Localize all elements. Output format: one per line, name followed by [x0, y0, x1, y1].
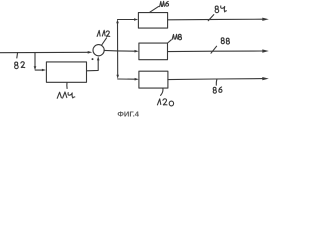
leader slash for label 88: [211, 46, 217, 53]
wire branch down to block 114: [34, 53, 36, 68]
label 84: [215, 6, 218, 9]
label 114: [57, 92, 61, 98]
leader for label 112: [102, 38, 107, 45]
wire bus bottom into block 120: [118, 78, 135, 80]
label 86: [213, 87, 216, 90]
arrowhead output 86: [262, 77, 269, 80]
junction dot minus mark: [92, 58, 94, 60]
arrowhead up at bus top: [116, 19, 119, 23]
label 120: [157, 99, 160, 105]
wire output 88: [168, 50, 264, 53]
leader tick for label 82: [16, 53, 19, 59]
arrowhead down at corner: [34, 66, 37, 70]
arrowhead down at bus bottom: [116, 75, 119, 79]
label 118: [172, 34, 174, 39]
label 82: [15, 62, 18, 65]
wire output 86: [168, 79, 263, 80]
leader for label 118: [168, 40, 172, 43]
leader tick for label 86: [215, 79, 218, 85]
wire input line 82: [0, 51, 88, 53]
leader slash for label 84: [208, 15, 214, 21]
summing junction 112: [93, 45, 104, 56]
arrowhead output 88: [262, 49, 269, 52]
block 116: [138, 13, 167, 29]
label 112: [97, 30, 100, 36]
wire into block 114: [35, 69, 42, 71]
bus vertical up: [117, 23, 119, 51]
arrowhead into block 116: [134, 18, 138, 21]
arrowhead into summer: [88, 51, 93, 54]
arrowhead into block 118: [135, 50, 139, 53]
leader for label 114: [66, 83, 68, 89]
leader for label 120: [161, 88, 163, 95]
wire block 114 output to summer: [87, 60, 99, 70]
block 114: [46, 62, 86, 82]
arrowhead up into summer: [97, 56, 100, 60]
arrowhead into block 114: [42, 69, 46, 72]
label 88: [221, 38, 224, 41]
wire bus top into block 116: [118, 19, 135, 21]
block 120: [139, 71, 168, 88]
arrowhead output 84: [262, 18, 269, 21]
label 116: [160, 1, 162, 6]
svg-text:ФИГ.4: ФИГ.4: [117, 109, 139, 118]
block 118: [139, 43, 168, 60]
wire summer to bus and into block 118: [104, 49, 135, 52]
wire output 84: [168, 18, 264, 21]
arrowhead into block 120: [135, 78, 139, 81]
leader for label 116: [150, 6, 159, 12]
bus vertical down: [117, 51, 119, 76]
